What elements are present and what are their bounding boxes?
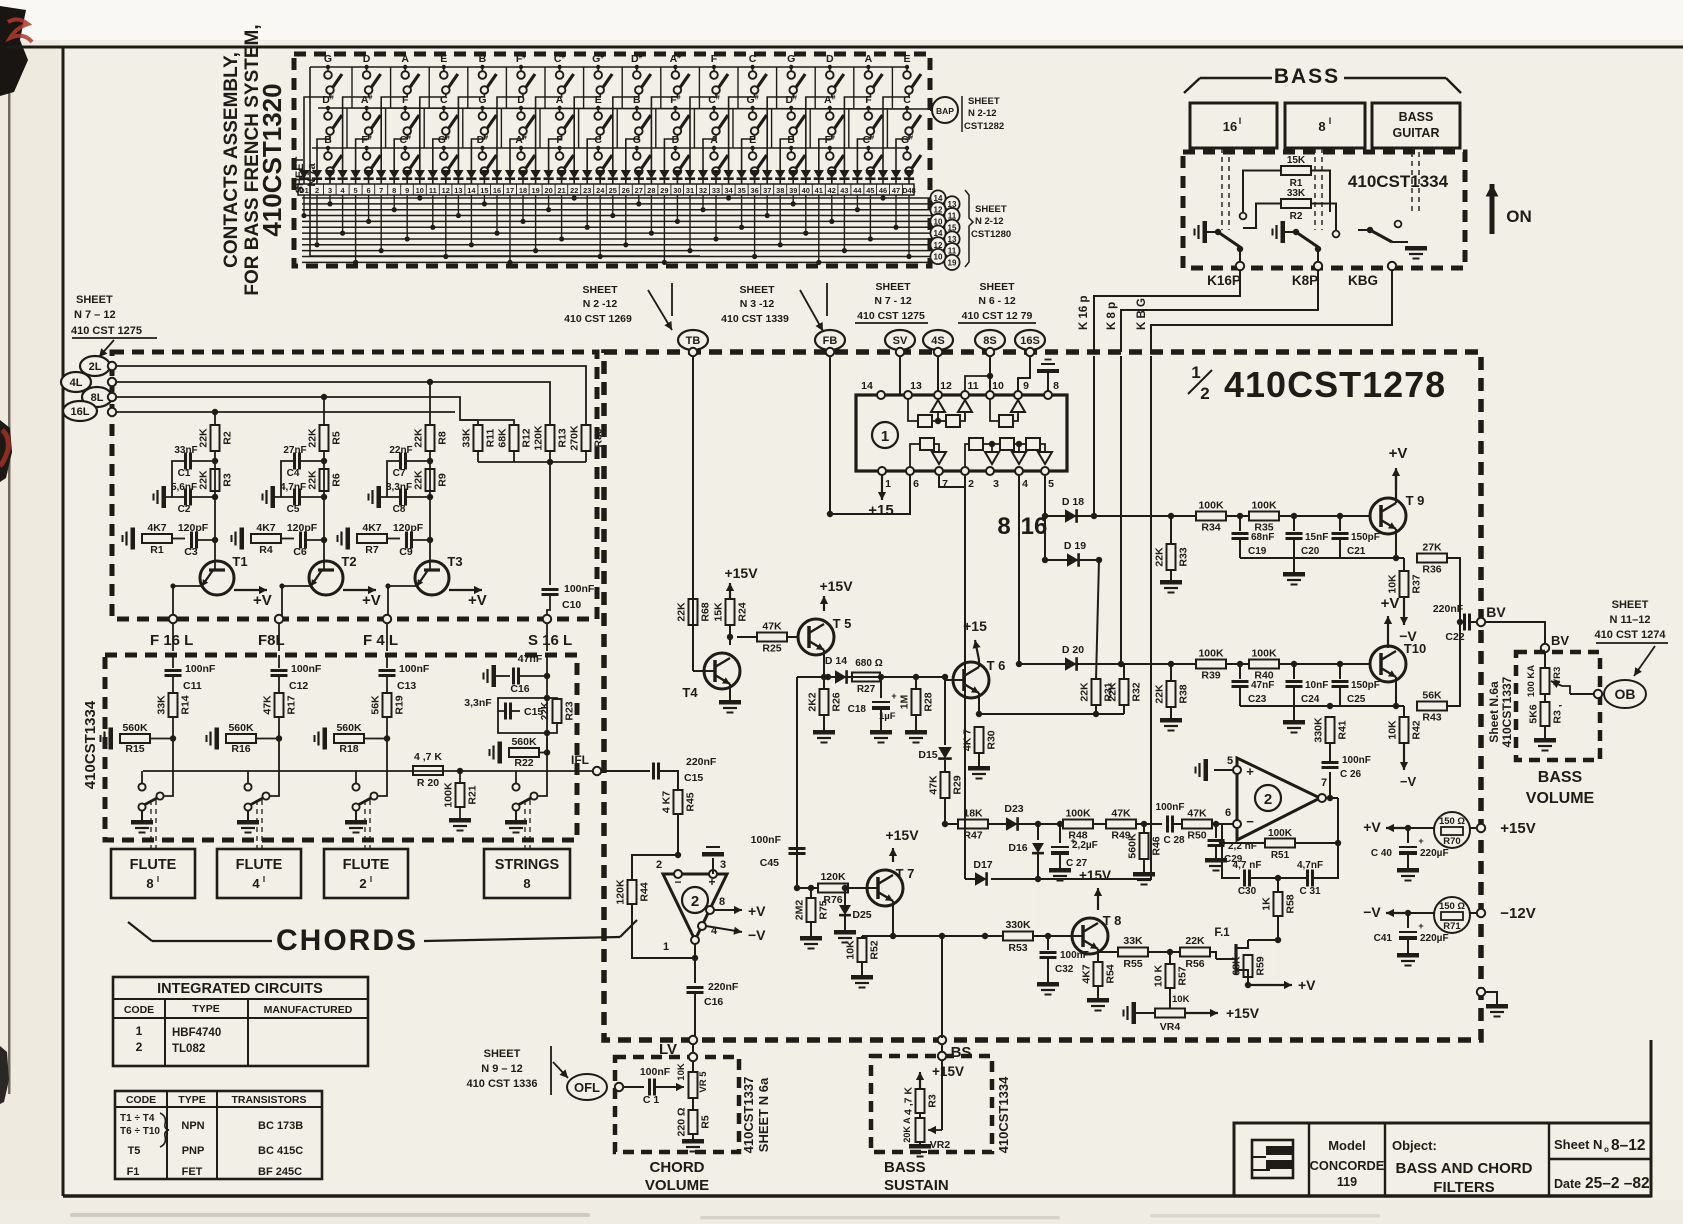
svg-text:47nF: 47nF [1251,680,1274,691]
svg-text:100nF: 100nF [399,663,430,675]
tab switch box 8' [1285,103,1365,148]
wire D14 row [797,677,945,888]
wire col3 switch drops [381,94,407,176]
wire diode 6 to bus 5 [366,195,371,224]
resistor R1 15K [1281,155,1311,189]
svg-text:18: 18 [519,186,527,195]
resistor R42 10K [1387,706,1423,789]
svg-text:1: 1 [663,941,669,953]
terminal LV bottom [689,1036,697,1044]
svg-text:R19: R19 [394,695,406,714]
svg-text:R52: R52 [869,940,881,959]
svg-text:4 ,7 K: 4 ,7 K [903,1087,915,1115]
svg-text:A: A [865,53,873,65]
svg-text:C6: C6 [293,546,307,558]
svg-text:8: 8 [523,876,530,891]
contact switch col3 row3 note C# [399,134,419,175]
bus line 9 [302,244,931,246]
wire K16P to K16p line [1094,270,1240,352]
rotated 410CST1337 sheet N6a [741,1077,771,1154]
capacitor C32 100nF [1037,936,1089,995]
diode D27 [634,170,644,184]
svg-text:47K: 47K [928,775,940,795]
svg-text:C30: C30 [1238,886,1257,897]
svg-text:CODE: CODE [124,1004,154,1016]
resistor R5 22K [320,425,329,451]
svg-text:E: E [903,53,910,65]
svg-text:R2: R2 [1290,211,1303,222]
svg-text:T3: T3 [447,554,462,569]
svg-text:+: + [1418,921,1423,931]
svg-text:20: 20 [544,186,552,195]
contact matrix bus row 1 [310,66,906,68]
capacitor C1 33nF [172,445,218,497]
svg-text:68K: 68K [1231,956,1243,976]
svg-text:R25: R25 [762,643,781,655]
resistor R32 22K [1107,664,1143,705]
svg-text:G: G [633,134,641,146]
scan smudges bottom [70,1213,590,1217]
svg-text:R26: R26 [831,692,843,711]
wire diode 4 to bus 7 [340,195,345,236]
wire D18 row [1045,515,1196,517]
contact switch col2 row1 note D [363,53,381,94]
svg-text:2: 2 [136,1040,143,1054]
diode D25 [608,170,618,184]
wire diode 46 to bus 1 [880,195,885,201]
contact switch col6 row1 note F# [516,53,535,94]
IC pin 5 [1041,467,1054,490]
svg-text:C18: C18 [848,704,867,715]
svg-text:10K: 10K [1172,994,1190,1005]
transistor T1 [200,554,248,595]
bus line 11 [302,256,931,258]
svg-text:SV: SV [893,335,908,347]
svg-text:−V: −V [1400,774,1417,789]
svg-text:R11: R11 [485,429,497,448]
svg-text:22K: 22K [413,470,425,490]
wire D20 row [1019,663,1196,665]
svg-text:VOLUME: VOLUME [1526,790,1595,807]
diode D28 [646,170,656,184]
svg-text:4,7 nF: 4,7 nF [1233,860,1262,871]
red pencil marks [8,19,32,42]
wire SV to pin13 [899,356,901,395]
svg-text:2: 2 [1264,791,1272,808]
svg-text:2: 2 [691,893,699,910]
svg-text:4K 7: 4K 7 [962,729,974,751]
svg-text:T1 ÷ T4: T1 ÷ T4 [120,1113,155,1124]
contact switch col13 row1 note G [787,53,805,94]
svg-text:SHEET: SHEET [875,281,911,293]
svg-text:47nF: 47nF [518,653,543,665]
svg-text:410CST1334: 410CST1334 [996,1076,1011,1153]
wire op-amp1 output [694,944,696,983]
wire KBG to KBG line [1151,270,1392,352]
transistor T4 [682,653,740,700]
svg-text:T 6: T 6 [987,658,1006,673]
capacitor C10 100nF [542,583,595,619]
diode D43 [839,170,849,184]
feedback resistor R51 100K [1219,798,1341,861]
svg-text:4K7: 4K7 [362,522,381,534]
supply R71 150ohm [1363,897,1535,933]
IFL bus wire [143,770,597,772]
svg-text:+V: +V [748,903,766,919]
svg-text:8: 8 [719,896,725,908]
svg-text:R1: R1 [150,544,164,556]
svg-text:120K: 120K [820,871,846,883]
svg-text:10: 10 [934,253,943,262]
svg-text:410 CST 1339: 410 CST 1339 [721,313,789,325]
contact switch col15 row2 note F [865,94,883,135]
svg-text:−V: −V [1363,904,1381,920]
bus line 4 [302,215,944,217]
wire diode 16 to bus 7 [494,195,499,236]
logo piano keys [1252,1140,1293,1178]
svg-text:10 K: 10 K [1153,964,1165,987]
transistor T9 [1370,493,1424,534]
svg-text:20K A: 20K A [902,1117,912,1143]
wire col8 switch drops [574,94,600,176]
svg-text:NPN: NPN [181,1120,204,1132]
svg-text:o: o [1604,1145,1609,1154]
diode D10 [415,170,425,184]
svg-text:410CST1337: 410CST1337 [1500,676,1514,747]
diode D12 [441,170,451,184]
svg-text:STRINGS: STRINGS [495,857,560,873]
svg-text:6: 6 [913,478,919,490]
title date [1554,1175,1650,1192]
svg-text:14: 14 [467,186,476,195]
wire T10 emitter row [1240,677,1399,709]
wire diode 39 to bus 2 [791,195,796,206]
svg-text:270K: 270K [569,425,581,451]
svg-text:C25: C25 [1347,694,1366,705]
contact switch col4 row1 note E [440,53,458,94]
title block [1234,1123,1651,1196]
svg-text:D 19: D 19 [1064,540,1086,552]
svg-text:100K: 100K [1268,828,1293,839]
+V arrow T1 [234,586,272,609]
wire pin6 to FB rail [830,475,910,514]
svg-text:R2: R2 [222,431,234,445]
svg-text:410 CST 12 79: 410 CST 12 79 [962,310,1033,322]
capacitor C12 100nF [271,655,322,692]
svg-text:+V: +V [468,592,487,609]
svg-text:2,2µF: 2,2µF [1072,840,1098,851]
svg-text:C: C [749,53,757,65]
inter-row link wire col8 [617,67,622,148]
terminal SV [885,330,915,350]
svg-text:34: 34 [724,186,733,195]
svg-text:220nF: 220nF [1433,603,1464,615]
inter-row link wire col7 [579,67,584,148]
bus terminal 13 [944,196,959,211]
wire D16 col to R53 [1037,879,1039,936]
svg-text:+V: +V [1381,595,1400,612]
svg-text:R55: R55 [1123,958,1142,970]
svg-text:4L: 4L [70,377,83,389]
svg-text:R58: R58 [1285,894,1297,913]
svg-text:R36: R36 [1422,564,1441,576]
strings branch C15 3,3nF parallel R23 22K [464,676,575,752]
capacitor C24 10nF [1283,664,1328,733]
resistor R48 100K [1063,820,1093,829]
wire diode 31 to bus 10 [687,195,692,253]
wire diode 28 to bus 7 [649,195,654,236]
contact switch col6 row2 note D [517,94,535,135]
svg-text:R23: R23 [564,701,576,720]
input bus wire 2L [116,366,586,425]
svg-text:I: I [370,875,372,884]
capacitor C11 100nF [165,655,216,692]
svg-text:R75: R75 [818,900,830,919]
svg-text:44: 44 [853,186,862,195]
bus terminal 12 [930,202,945,217]
svg-text:5K6: 5K6 [1528,704,1540,723]
svg-text:T2: T2 [341,554,356,569]
wire IFL into main box [601,770,650,772]
svg-text:C: C [440,94,448,106]
svg-text:C: C [594,134,602,146]
svg-text:N 2-12: N 2-12 [968,108,997,119]
op-amp U2b triangle [1225,755,1327,840]
svg-text:N 3 -12: N 3 -12 [740,298,775,310]
pot VR2 20KA [902,1117,950,1157]
node R25 feed [727,634,733,640]
svg-text:S 16 L: S 16 L [528,632,572,649]
capacitor C19 68nF [1232,516,1275,558]
svg-text:D: D [363,53,371,65]
terminal FB [815,330,845,350]
svg-text:BASS: BASS [1274,65,1340,88]
svg-text:410CST1320: 410CST1320 [257,83,287,236]
svg-text:2L: 2L [89,361,102,373]
wire diode 12 to bus 11 [443,195,448,259]
svg-text:N 7 – 12: N 7 – 12 [74,309,116,321]
transistor T10 [1370,641,1426,682]
svg-text:TL082: TL082 [172,1043,205,1055]
svg-text:GUITAR: GUITAR [1393,126,1440,140]
svg-text:C22: C22 [1445,631,1464,643]
svg-text:T 9: T 9 [1406,493,1425,508]
terminal BV bass volume [1541,633,1570,652]
svg-text:410 CST 1275: 410 CST 1275 [857,310,925,322]
svg-text:19: 19 [948,258,957,267]
svg-text:B: B [324,134,332,146]
diode D15 [918,680,951,761]
svg-text:−V: −V [748,927,766,943]
svg-text:C41: C41 [1374,933,1393,944]
svg-text:410 CST 1274: 410 CST 1274 [1595,629,1667,641]
svg-text:560K: 560K [336,722,362,734]
svg-text:R46: R46 [1151,836,1163,855]
wire diode 47 to bus 6 [893,195,898,230]
contact matrix left rail wire [310,67,700,256]
page frame [6,46,1683,49]
contact switch col8 row1 note G# [592,53,612,94]
svg-text:6: 6 [367,186,371,195]
svg-text:40: 40 [802,186,810,195]
terminal 8S [975,330,1005,350]
svg-text:3,3nF: 3,3nF [464,697,492,709]
svg-text:KBG: KBG [1348,273,1378,288]
diode D21 [557,170,567,184]
svg-text:R41: R41 [1337,720,1349,739]
resistor R26 2K2 [807,674,843,743]
svg-text:R17: R17 [286,695,298,714]
svg-text:D23: D23 [1004,803,1023,815]
svg-text:24: 24 [596,186,605,195]
wire col7 switch drops [536,94,562,176]
svg-text:IFL: IFL [571,753,589,767]
+15 supply IC [868,475,893,519]
capacitor C1 100nF [640,1066,684,1106]
svg-text:R16: R16 [231,743,250,755]
svg-text:R38: R38 [1178,684,1190,703]
contact switch col3 row1 note A [401,53,419,94]
svg-text:C8: C8 [393,504,406,515]
IC pin 10 [986,380,1004,399]
FLUTE 2' box [324,849,408,898]
svg-text:C21: C21 [1347,546,1366,557]
svg-text:3: 3 [720,859,726,871]
svg-text:OFL: OFL [574,1080,600,1095]
svg-text:15K: 15K [1287,155,1306,166]
inter-row link wire col4 [463,67,468,148]
svg-text:220µF: 220µF [1420,933,1449,944]
svg-text:1M: 1M [899,694,911,709]
wire R1 to K16P [1243,171,1281,213]
svg-text:C11: C11 [183,680,202,692]
svg-text:TYPE: TYPE [178,1094,205,1106]
diode D20 [1016,644,1124,671]
svg-text:410CST1334: 410CST1334 [1348,172,1449,191]
svg-text:330K: 330K [1005,919,1031,931]
svg-text:15K: 15K [713,602,725,622]
svg-text:K 8 p: K 8 p [1106,302,1118,330]
svg-text:BS: BS [951,1044,972,1061]
wire diode 13 to bus 4 [456,195,461,218]
diode D38 [775,170,785,184]
wire diode 22 to bus 1 [572,195,577,201]
svg-text:39: 39 [789,186,797,195]
svg-text:150 Ω: 150 Ω [1439,816,1465,827]
ground op-amp pin3 [702,847,724,874]
switch at column x=387 [345,738,387,833]
sheet note N9-12 410CST1336 [467,1046,568,1095]
resistor R58 1K [1261,881,1297,940]
svg-text:D25: D25 [852,909,871,921]
svg-text:4 K7: 4 K7 [661,791,673,813]
svg-text:14: 14 [861,380,873,392]
contact switch col8 row3 note C [594,134,612,175]
mech dashed link x=547 [524,800,526,849]
wire R35 to T9 [1279,515,1370,517]
resistor R45 4K7 [661,790,697,855]
svg-text:T 5: T 5 [833,616,852,631]
svg-text:OB: OB [1615,686,1636,702]
contact switch col12 row1 note C [749,53,767,94]
svg-text:C10: C10 [562,599,581,611]
diode D4 [338,170,348,184]
svg-text:CODE: CODE [126,1094,156,1106]
wire diode 21 to bus 8 [559,195,564,242]
wire diode 5 to bus 12 [353,195,358,265]
svg-text:100nF: 100nF [564,583,595,595]
svg-text:7: 7 [942,478,948,490]
svg-text:410 CST 1275: 410 CST 1275 [71,325,142,337]
wire diode 42 to bus 5 [829,195,834,224]
contact switch col10 row1 note A# [670,53,690,94]
svg-text:R13: R13 [557,428,569,447]
svg-text:I: I [263,875,265,884]
svg-text:C20: C20 [1301,546,1320,557]
diode D14 [466,170,476,184]
inter-row link wire col9 [656,67,661,148]
diode D46 [878,170,888,184]
svg-text:F 4 L: F 4 L [363,632,398,649]
wire diode 14 to bus 9 [469,195,474,247]
resistor R39 100K [1196,660,1226,669]
svg-text:R28: R28 [923,692,935,711]
resistor R55 33K [1098,935,1148,970]
svg-text:+15V: +15V [932,1064,964,1079]
svg-text:29: 29 [660,186,668,195]
contact switch col12 row3 note E [749,134,767,175]
resistor R19 56K [383,693,392,717]
diode D11 [428,170,438,184]
wire diode 40 to bus 7 [803,195,808,236]
svg-text:2: 2 [968,478,974,490]
svg-text:68K: 68K [497,428,509,448]
svg-text:R43: R43 [1422,712,1441,724]
wire col5 switch drops [458,94,484,176]
svg-text:27: 27 [635,186,643,195]
svg-text:R7: R7 [365,544,379,556]
wire diode 18 to bus 5 [520,195,525,224]
resistor R18 560K [315,717,391,755]
svg-text:5: 5 [1048,478,1054,490]
transistor T8 [1033,913,1121,954]
svg-text:8: 8 [392,186,396,195]
terminal OB [1604,680,1646,708]
IC pin 6 [906,467,919,490]
capacitor C8 3,3nF [369,482,434,515]
resistor R5 220ohm [676,1098,712,1152]
diode D41 [814,170,824,184]
BASS title bracket [1184,65,1461,93]
contact switch col14 row3 note F# [825,134,844,175]
IC internal buffers bottom [910,438,1052,468]
svg-text:8: 8 [1318,119,1325,134]
svg-text:R57: R57 [1177,966,1189,985]
svg-text:C 1: C 1 [643,1094,660,1106]
resistor R21 100K [443,768,479,831]
svg-text:R22: R22 [514,757,533,769]
svg-text:B: B [787,134,795,146]
wire diode 10 to bus 1 [417,195,422,201]
svg-text:C16: C16 [510,683,529,695]
mechanical linkage dashed 8' [1314,148,1316,230]
+V arrow T2 [343,586,381,609]
diode D22 [569,170,579,184]
resistor R41 330K [1313,717,1349,750]
svg-text:FLUTE: FLUTE [343,857,390,873]
svg-text:−12V: −12V [1500,905,1535,922]
supply R70 150ohm [1363,812,1535,848]
